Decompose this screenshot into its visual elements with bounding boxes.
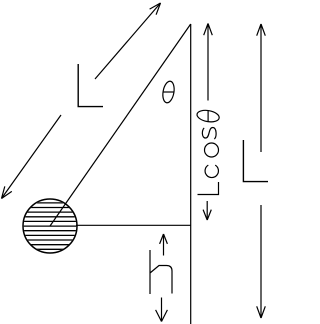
arrow: right total-length lower arrow (down) <box>257 205 266 318</box>
arrow: L cos(theta) lower arrow (down) <box>203 201 211 220</box>
arrow: lower-left direction arrow (down-left) <box>2 115 62 199</box>
wire: horizontal line from ball to vertical line <box>76 224 191 226</box>
wire: main vertical reference line <box>190 24 192 324</box>
arrow: h upper arrow (up) <box>160 234 168 256</box>
label theta <box>161 80 175 103</box>
label L (right, total length) <box>243 140 268 182</box>
label L cos(theta), rotated <box>196 109 220 195</box>
arrow: h lower arrow (down) <box>156 298 168 322</box>
pendulum ball (hatched circle) <box>20 199 80 253</box>
label h <box>150 250 172 294</box>
arrow: upper-left direction arrow (up-right) <box>95 3 161 79</box>
wire: pendulum string from pivot to ball center <box>50 24 191 226</box>
arrow: right total-length upper arrow (up) <box>257 24 266 152</box>
arrow: L cos(theta) upper arrow (up) <box>204 24 213 101</box>
label L (left, along string) <box>78 64 103 107</box>
